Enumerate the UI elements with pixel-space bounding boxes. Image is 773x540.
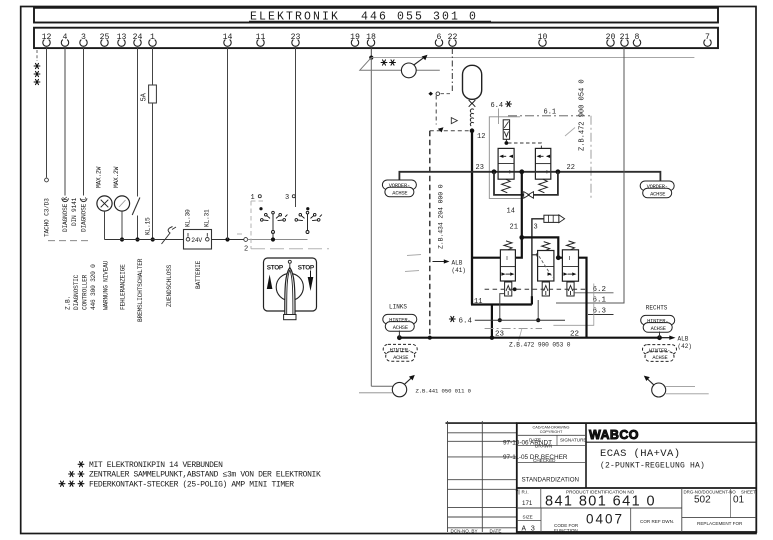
pin 1 <box>149 33 156 46</box>
svg-text:ACHSE: ACHSE <box>650 192 665 198</box>
svg-text:COR REF DWN.: COR REF DWN. <box>640 519 674 524</box>
svg-text:Z.B.472 900 054 0: Z.B.472 900 054 0 <box>579 79 587 151</box>
line 14/21 down <box>521 172 523 238</box>
spring HA B (top) <box>542 242 550 251</box>
fuse 5A on pin 1 wire <box>149 85 157 103</box>
svg-text:MAX.2W: MAX.2W <box>113 166 120 188</box>
bypass loop with throttle <box>494 172 558 195</box>
pin 6 <box>435 33 442 46</box>
spring VA left <box>502 179 511 193</box>
title block frame <box>517 423 757 532</box>
svg-text:SIGNATURE: SIGNATURE <box>560 438 586 443</box>
pin 24 <box>133 33 143 46</box>
svg-text:7: 7 <box>705 33 710 42</box>
svg-text:HINTER-: HINTER- <box>649 348 670 354</box>
svg-text:ZENTRALER SAMMELPUNKT,ABSTAND: ZENTRALER SAMMELPUNKT,ABSTAND ≤3m VON DE… <box>89 471 321 480</box>
svg-text:6.2: 6.2 <box>593 286 607 294</box>
HA valve C <box>562 250 578 281</box>
wire pin 18 ground <box>370 48 372 58</box>
arrow down right <box>310 271 312 279</box>
svg-text:VORDER-: VORDER- <box>647 184 668 190</box>
leader marks <box>407 255 421 256</box>
pin 8 <box>633 33 640 46</box>
ground drop line <box>370 58 372 387</box>
svg-text:6.4: 6.4 <box>491 102 504 110</box>
svg-text:ACHSE: ACHSE <box>393 355 408 361</box>
dashed leader diagnostics <box>48 240 90 242</box>
dashed wire to valve unit <box>435 96 437 125</box>
svg-text:DIAGNOSE K: DIAGNOSE K <box>62 196 69 232</box>
svg-text:MIT ELEKTRONIKPIN 14 VERBUNDEN: MIT ELEKTRONIKPIN 14 VERBUNDEN <box>89 461 223 470</box>
HA unit dash-dot bottom <box>485 328 542 330</box>
junction dashed/bus <box>428 336 432 340</box>
svg-text:ZUENDSCHLOSS: ZUENDSCHLOSS <box>166 264 173 307</box>
pilot valve 6.4 <box>503 120 509 140</box>
note marker ** <box>381 60 387 65</box>
svg-text:21: 21 <box>510 224 518 232</box>
svg-text:ACHSE: ACHSE <box>652 355 667 361</box>
svg-text:FEHLERANZEIGE: FEHLERANZEIGE <box>120 264 127 310</box>
svg-text:HINTER-: HINTER- <box>389 318 410 324</box>
svg-text:ACHSE: ACHSE <box>651 326 666 332</box>
svg-text:LINKS: LINKS <box>389 304 407 311</box>
wire pin 14 to bus <box>227 48 229 240</box>
svg-text:FUNCTION: FUNCTION <box>554 528 578 533</box>
pin 20 <box>606 33 616 46</box>
pilot solenoid C <box>567 282 574 296</box>
wire fan left to bus <box>272 233 274 240</box>
lamp FEHLERANZEIGE <box>114 196 129 211</box>
muffler pipe <box>532 219 544 305</box>
wire switch to bus <box>137 216 139 240</box>
svg-text:97-10-06 ARNDT: 97-10-06 ARNDT <box>503 440 552 447</box>
connector arc K <box>62 198 69 201</box>
svg-text:HINTER-: HINTER- <box>390 348 411 354</box>
svg-text:12: 12 <box>477 133 485 141</box>
label * 6.4 <box>449 316 455 321</box>
height sensor front axle <box>401 55 427 78</box>
junction ground node <box>369 56 373 60</box>
svg-text:KL.30: KL.30 <box>184 209 191 227</box>
HA valve B <box>538 251 554 282</box>
svg-text:HINTER-: HINTER- <box>647 319 668 325</box>
svg-text:WABCO: WABCO <box>589 428 639 442</box>
svg-text:STANDARDIZATION: STANDARDIZATION <box>522 477 580 484</box>
tag VORDER-ACHSE right <box>640 181 674 198</box>
gray bus to rotary switch <box>248 239 308 241</box>
revision table <box>446 421 517 532</box>
supply bus <box>105 239 245 241</box>
sensor stub line <box>359 392 393 394</box>
svg-text:REPLACEMENT FOR: REPLACEMENT FOR <box>697 521 743 526</box>
wire 6.4 rail <box>475 319 565 321</box>
pilot solenoid B <box>542 282 549 296</box>
line to HA valve C <box>522 237 563 257</box>
lamp WARNUNG NIVEAU <box>97 196 112 211</box>
arrow up left <box>267 275 273 290</box>
pin 12 <box>42 33 52 46</box>
wire 6.1 to pin 21 <box>556 48 624 303</box>
svg-text:BATTERIE: BATTERIE <box>195 260 202 289</box>
svg-text:A 3: A 3 <box>522 526 536 534</box>
svg-text:(2-PUNKT-REGELUNG HA): (2-PUNKT-REGELUNG HA) <box>600 462 705 471</box>
valve C out to right <box>579 258 587 338</box>
svg-text:R.I.: R.I. <box>522 489 529 494</box>
svg-text:DATE: DATE <box>490 529 502 534</box>
wire pin 4 (DIAGNOSE K) <box>64 48 66 196</box>
terminal 2 circle <box>244 238 248 242</box>
footnote * <box>78 462 84 467</box>
rotary fan right <box>295 211 322 233</box>
svg-text:DIAGNOSTIC: DIAGNOSTIC <box>73 274 80 310</box>
pin 19 <box>350 33 360 46</box>
line node21 to valve A right port <box>515 237 521 257</box>
shield collection line top <box>371 57 694 59</box>
connector arc L <box>80 198 87 201</box>
svg-text:Z.B.434 204 000 0: Z.B.434 204 000 0 <box>437 184 444 249</box>
svg-text:4: 4 <box>63 33 68 42</box>
wire pin 24 to brake switch <box>137 48 139 197</box>
wire pin 23 to contact 3 <box>295 48 297 207</box>
ignition switch ZUENDSCHLOSS <box>162 227 177 245</box>
pilot dashed rail <box>485 288 586 290</box>
tag HINTER-ACHSE left solid <box>383 314 417 331</box>
zero position mark <box>288 260 291 263</box>
svg-text:FEDERKONTAKT-STECKER (25-POLIG: FEDERKONTAKT-STECKER (25-POLIG) AMP MINI… <box>89 480 294 489</box>
fan left position dot <box>259 207 262 210</box>
svg-text:ALB: ALB <box>452 259 463 266</box>
svg-text:1: 1 <box>150 33 155 42</box>
arrow to ALB (41) <box>433 261 446 263</box>
svg-text:WARNUNG NIVEAU: WARNUNG NIVEAU <box>103 260 110 310</box>
note marker *** (25-pin connector) <box>34 50 40 85</box>
svg-text:2: 2 <box>244 246 248 254</box>
svg-text:3: 3 <box>285 194 289 202</box>
svg-text:ECAS (HA+VA): ECAS (HA+VA) <box>600 448 680 460</box>
junction lamp2/bus <box>120 237 124 241</box>
main supply line down <box>471 131 473 305</box>
throttle check symbol <box>524 192 534 199</box>
svg-text:(42): (42) <box>678 343 692 350</box>
pilot valve output dot <box>505 139 507 141</box>
svg-text:BREMSLICHTSCHALTER: BREMSLICHTSCHALTER <box>137 258 144 322</box>
supply dashed line Z.B.434 <box>429 131 431 338</box>
svg-text:6: 6 <box>437 33 442 42</box>
svg-text:TACHO C3/D3: TACHO C3/D3 <box>44 198 51 237</box>
svg-text:SIZE: SIZE <box>523 514 533 519</box>
svg-text:6.4: 6.4 <box>459 318 473 326</box>
svg-text:171: 171 <box>522 500 533 507</box>
pin 4 <box>61 33 68 46</box>
valve unit frame VA <box>489 117 523 199</box>
leader to VA unit <box>565 128 575 137</box>
switch blade BREMSLICHTSCHALTER <box>132 198 140 216</box>
knob circle <box>276 273 303 300</box>
pin 11 <box>256 33 266 46</box>
tag HINTER-ACHSE left dashed <box>383 344 417 361</box>
junction dots main line <box>492 169 497 174</box>
junction pin1/bus <box>151 237 155 241</box>
solenoid valve VA right <box>535 148 550 179</box>
svg-text:01: 01 <box>733 495 745 506</box>
footnote *** <box>59 481 65 486</box>
svg-text:ACHSE: ACHSE <box>392 191 407 197</box>
25-pin connector box <box>34 28 718 48</box>
link tag to bus <box>398 331 400 338</box>
svg-text:446 300 320 0: 446 300 320 0 <box>90 264 97 310</box>
svg-text:22: 22 <box>567 164 575 172</box>
rotary fan left <box>261 211 288 233</box>
pin 22 <box>448 33 458 46</box>
solenoid valve VA left <box>498 148 514 179</box>
ELEKTRONIK title box <box>34 8 718 24</box>
spring VA right <box>539 179 548 193</box>
pin 3 <box>80 33 87 46</box>
rear axle bus <box>399 337 659 339</box>
wire pilot B down <box>537 300 539 320</box>
pin 14 <box>223 33 233 46</box>
wire lamp1 to bus <box>104 211 106 239</box>
svg-text:STOP: STOP <box>298 264 315 271</box>
svg-text:14: 14 <box>507 208 515 216</box>
svg-text:KL.31: KL.31 <box>204 209 211 227</box>
svg-text:ALB: ALB <box>678 336 689 343</box>
line 23 to front axle left <box>399 172 660 181</box>
tag HINTER-ACHSE right dashed <box>643 345 677 362</box>
svg-text:24V: 24V <box>191 237 202 244</box>
wire pilot A down <box>500 294 505 321</box>
svg-text:Z.B.441 050 011 0: Z.B.441 050 011 0 <box>416 387 472 394</box>
muffler 3 <box>544 215 565 223</box>
pin 25 <box>100 33 110 46</box>
spring HA A (top) <box>504 241 512 250</box>
fan right position dot <box>306 207 309 210</box>
leader 6.4 <box>497 109 499 125</box>
svg-text:3: 3 <box>81 33 86 42</box>
supply branch to valve A <box>471 257 500 259</box>
label Z.B. DIAGNOSTIC CONTROLLER 446 300 320 0 <box>65 264 98 310</box>
svg-text:(41): (41) <box>452 267 466 274</box>
dashed enclosure rotary switch <box>237 201 329 249</box>
svg-text:Z.B.472 900 053 0: Z.B.472 900 053 0 <box>509 342 571 349</box>
footnote ** <box>69 471 75 476</box>
pin 7 <box>704 33 711 46</box>
svg-text:3: 3 <box>534 224 538 232</box>
svg-text:Z.B.: Z.B. <box>65 296 72 310</box>
pin 10 <box>538 33 548 46</box>
pilot dashed line to valves <box>508 143 541 148</box>
bellows neck chevrons <box>469 100 476 107</box>
bellows coil <box>470 109 473 126</box>
svg-text:RECHTS: RECHTS <box>646 305 668 312</box>
svg-text:502: 502 <box>694 495 711 506</box>
HA valve A <box>500 250 515 281</box>
svg-text:DIAGNOSE L: DIAGNOSE L <box>80 196 87 232</box>
svg-text:STOP: STOP <box>267 264 284 271</box>
HA unit thin frame <box>553 284 593 326</box>
STOP rotary switch housing <box>264 258 317 311</box>
svg-text:DIN 9141: DIN 9141 <box>71 197 78 226</box>
wire pin 22 dash-dot <box>451 48 453 91</box>
svg-text:6.1: 6.1 <box>593 297 607 305</box>
tag HINTER-ACHSE right solid <box>641 315 675 332</box>
plug connector symbol <box>428 92 433 96</box>
junction node 21 <box>519 235 524 240</box>
wire 6.2 (pilot C) <box>574 292 613 294</box>
wire pin 12 to tacho <box>46 48 48 178</box>
height sensor rear left <box>392 375 415 397</box>
tag VORDER-ACHSE left <box>382 180 416 197</box>
svg-text:KL.15: KL.15 <box>144 217 151 235</box>
junction main node 12 <box>470 128 475 133</box>
wire pin 3 (DIAGNOSE L) <box>83 48 85 196</box>
lower manifold lines <box>471 303 532 305</box>
air spring bellows <box>463 65 482 99</box>
svg-text:11: 11 <box>474 298 482 306</box>
svg-text:841 801 641 0: 841 801 641 0 <box>545 494 656 510</box>
svg-text:6.1: 6.1 <box>544 109 557 117</box>
branch to height sensor VA <box>360 58 440 71</box>
pin 13 <box>117 33 127 46</box>
pin 18 <box>366 33 376 46</box>
spring HA C (top) <box>567 241 575 250</box>
wire pin 1 to bus (through fuse) <box>152 48 154 85</box>
pin 21 <box>620 33 630 46</box>
tacho terminal circle <box>45 178 49 182</box>
svg-text:1: 1 <box>251 194 255 202</box>
arrow ALB (42) <box>660 337 671 339</box>
pilot solenoid A <box>505 282 512 296</box>
svg-text:CONTROLLER: CONTROLLER <box>82 274 89 310</box>
height sensor rear right <box>644 376 709 397</box>
svg-text:VORDER-: VORDER- <box>389 183 410 189</box>
junction switch/bus <box>135 237 139 241</box>
svg-text:MAX.2W: MAX.2W <box>96 166 103 188</box>
flow triangle <box>451 118 457 124</box>
svg-text:97-11-05 DR.BECHER: 97-11-05 DR.BECHER <box>503 454 568 461</box>
svg-text:0407: 0407 <box>586 512 624 527</box>
knob handle <box>285 268 295 319</box>
pin 23 <box>291 33 301 46</box>
svg-text:5A: 5A <box>141 92 149 101</box>
junction pin14/bus <box>225 237 229 241</box>
svg-text:8: 8 <box>635 33 640 42</box>
battery 24V <box>184 230 212 250</box>
svg-text:23: 23 <box>476 164 484 172</box>
svg-text:7: 7 <box>515 490 518 496</box>
svg-text:ACHSE: ACHSE <box>393 325 408 331</box>
svg-text:COPYRIGHT: COPYRIGHT <box>540 430 563 434</box>
svg-text:DCN-NO. BY: DCN-NO. BY <box>451 529 478 534</box>
wire lamp2 to bus <box>121 211 123 239</box>
dashed link to main node <box>430 130 469 132</box>
